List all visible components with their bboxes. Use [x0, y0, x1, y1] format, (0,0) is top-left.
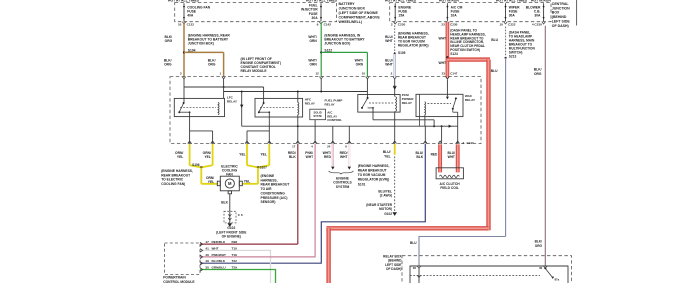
svg-text:10A: 10A: [451, 14, 458, 18]
CCRM bottom pin overlay: [296, 141, 300, 143]
fuse F5 wiper 30A: [505, 3, 507, 21]
svg-text:OF DASH): OF DASH): [386, 267, 401, 271]
svg-text:FIELD COIL: FIELD COIL: [440, 186, 458, 190]
splice S124: [446, 56, 448, 58]
CCRM pin3 wire: [183, 79, 185, 103]
relay K5 inner left line: [418, 94, 420, 126]
wire BLU/BLK navy: [200, 144, 425, 263]
relay box pin 30: [544, 266, 548, 268]
svg-text:10: 10: [362, 72, 366, 76]
connector C230 pin 23: [446, 22, 450, 24]
CCRM bottom pin overlay: [393, 141, 397, 143]
PCM pin 47: [200, 242, 203, 245]
CCRM pin10 wire: [366, 79, 368, 98]
CCRM drop r3: [332, 126, 334, 143]
svg-text:S101: S101: [358, 182, 366, 186]
ground G102 fan: [228, 223, 233, 227]
CCRM bottom pin overlay: [331, 141, 335, 143]
svg-text:YEL: YEL: [260, 153, 266, 157]
wire ORN/YEL to fan: [200, 167, 202, 183]
svg-text:30A: 30A: [534, 14, 541, 18]
CCRM bottom pin 10: [424, 141, 428, 143]
svg-text:(ENGINE HARNESS,: (ENGINE HARNESS,: [358, 164, 390, 168]
CCRM top pin 23 overlay: [446, 77, 450, 79]
svg-text:BLU/BLK: BLU/BLK: [212, 259, 226, 263]
svg-text:G102: G102: [384, 212, 392, 216]
wire ORN/YEL left 2: [212, 144, 214, 165]
svg-text:JUNCTION BOX): JUNCTION BOX): [188, 41, 214, 45]
svg-text:4 C230: 4 C230: [532, 23, 542, 27]
CCRM bottom pin 8: [348, 141, 352, 143]
inline connector C6 (dashed box): [224, 211, 236, 223]
wire BLK/ORG maroon from F6: [544, 26, 546, 266]
relay K2 dashed link: [260, 106, 295, 108]
svg-text:YEL: YEL: [239, 153, 245, 157]
svg-text:REGULATOR (EVR)): REGULATOR (EVR)): [358, 178, 390, 182]
relay K5 coil: [425, 102, 426, 115]
CCRM top pin 1: [222, 77, 226, 79]
svg-text:REAR BREAKOUT: REAR BREAKOUT: [358, 169, 387, 173]
CCRM bottom pin overlay: [268, 141, 272, 143]
svg-text:17: 17: [292, 145, 296, 149]
CCRM top pin 12: [319, 77, 323, 79]
svg-text:TO EGR VACUUM: TO EGR VACUUM: [358, 173, 386, 177]
wire YEL right 2: [268, 144, 270, 165]
CCRM top pin 10: [366, 77, 370, 79]
wire BLK from fan: [229, 194, 231, 212]
svg-text:(2 AWG): (2 AWG): [380, 194, 392, 198]
wire tan branch: [184, 51, 224, 53]
svg-text:BOX: BOX: [552, 11, 560, 15]
fuse F1 cooling fan 40A: [183, 3, 185, 21]
CCRM bottom pin 3: [245, 141, 249, 143]
svg-text:(NEAR STARTER: (NEAR STARTER: [366, 203, 392, 207]
CCRM bottom pin 5: [296, 141, 300, 143]
CCRM link bus y119.8: [373, 119, 434, 121]
PCM dashed box: [165, 243, 200, 274]
CCRM drop r5: [424, 115, 426, 126]
wire BLU slate vertical run: [505, 58, 507, 237]
svg-text:WHT: WHT: [448, 155, 455, 159]
PCM pin 46: [200, 255, 203, 258]
CCRM top pin 3: [182, 77, 186, 79]
CCRM bottom pin 12: [456, 141, 460, 143]
battery junction box (dashed): [175, 3, 337, 22]
svg-text:C142: C142: [324, 23, 332, 27]
svg-text:S107: S107: [260, 166, 268, 170]
A/C clutch field coil L1: [436, 168, 463, 179]
CCRM constant control relay module (dashed box): [170, 77, 481, 144]
CCRM bottom pin 9: [393, 141, 397, 143]
svg-text:RELAY MODULE: RELAY MODULE: [241, 69, 268, 73]
solid state device box: [310, 109, 326, 120]
svg-text:COOLING FAN): COOLING FAN): [161, 182, 185, 186]
svg-text:S213: S213: [509, 54, 517, 58]
relay box dashed internal: [410, 275, 540, 277]
svg-text:CONTROL: CONTROL: [327, 118, 342, 122]
relay K5 dashed link: [428, 103, 452, 105]
svg-text:RELAY: RELAY: [325, 103, 336, 107]
svg-text:ORG: ORG: [208, 63, 216, 67]
connector C222 pin 10: [504, 22, 508, 24]
wire red bottom horizontal run: [326, 226, 488, 230]
svg-text:C222: C222: [508, 23, 516, 27]
CCRM bottom pin 4: [268, 141, 272, 143]
connector C142 pin 9: [319, 22, 323, 24]
PCM pin 49: [200, 262, 203, 265]
svg-text:WHT: WHT: [385, 39, 393, 43]
svg-text:9: 9: [317, 23, 319, 27]
relay K4 contact node: [372, 107, 374, 109]
svg-text:M: M: [228, 181, 232, 186]
svg-text:24: 24: [327, 145, 331, 149]
PCM pin 30: [200, 268, 203, 271]
PCM pin overlay: [200, 242, 203, 245]
PCM pin overlay: [200, 255, 203, 258]
CCRM pin23 wire with arrow: [446, 80, 448, 97]
splice S105: [394, 52, 396, 54]
wire BLU/WHT to A/C clutch: [456, 144, 460, 172]
relay K4 contact drop: [368, 107, 373, 109]
relay K2 contact: [259, 103, 264, 112]
svg-text:S105: S105: [398, 51, 406, 55]
wire BLU/WHT dashed segment from F3: [394, 22, 396, 53]
svg-text:MOTOR): MOTOR): [379, 207, 392, 211]
svg-text:T22: T22: [232, 259, 238, 263]
svg-text:WHT: WHT: [438, 61, 446, 65]
CCRM drop r6: [441, 126, 443, 143]
svg-text:WHT: WHT: [306, 155, 314, 159]
relay K4 contact: [362, 98, 368, 108]
svg-text:LEFT SIDE: LEFT SIDE: [552, 20, 571, 24]
svg-text:10: 10: [499, 23, 503, 27]
svg-text:YEL: YEL: [384, 154, 390, 158]
svg-text:REGULATOR (EVR)): REGULATOR (EVR)): [398, 44, 429, 48]
CCRM drop r3b: [348, 126, 350, 143]
svg-text:36: 36: [413, 266, 417, 270]
svg-text:SENSOR): SENSOR): [261, 200, 276, 204]
svg-text:30A: 30A: [312, 16, 319, 20]
wire PCM row3 PNK/WHT: [200, 256, 315, 258]
engine controls brace: [329, 171, 354, 174]
svg-text:YEL: YEL: [177, 155, 183, 159]
svg-text:STATE: STATE: [313, 114, 322, 118]
CCRM drop r2: [314, 120, 316, 144]
svg-text:JUNCTION BOX): JUNCTION BOX): [324, 41, 350, 45]
svg-text:S124: S124: [450, 52, 458, 56]
svg-text:RELAY: RELAY: [227, 100, 238, 104]
svg-text:WHEELWELL): WHEELWELL): [339, 20, 363, 24]
relay K1 contact: [179, 103, 183, 112]
svg-text:BLU: BLU: [491, 38, 498, 42]
wire BLU/YEL short: [394, 144, 396, 155]
svg-text:C 6: C 6: [238, 213, 243, 217]
fuse F2 fuel injector 30A: [320, 3, 322, 21]
PCM pin 41: [200, 249, 203, 252]
CCRM bottom pin 2: [211, 141, 215, 143]
splice S104: [183, 51, 185, 53]
wire BLU dashed segment from F5: [505, 27, 507, 57]
svg-text:40A: 40A: [187, 14, 194, 18]
fuse F4 A/C CM 10A: [446, 3, 448, 21]
relay box pin 36: [417, 266, 421, 268]
node bus C r4: [433, 125, 435, 127]
connector C122 pin 10: [182, 22, 186, 24]
wire PCM row2 WHT: [200, 250, 270, 283]
arrow RED/WHT: [348, 167, 351, 170]
relay K5 WAC relay box: [416, 94, 463, 116]
relay K1 dashed link: [180, 106, 216, 108]
node bus A / pin 1: [223, 86, 225, 88]
wire PNK/WHT: [314, 144, 316, 257]
svg-text:RELAY: RELAY: [465, 98, 476, 102]
wire WHT/ORN green from F2: [320, 22, 322, 77]
CCRM bottom pin overlay: [456, 141, 460, 143]
svg-text:BLU: BLU: [491, 69, 498, 73]
svg-text:ORG: ORG: [164, 63, 172, 67]
relay K4 PCM power relay box: [358, 95, 400, 113]
svg-text:(BEHIND: (BEHIND: [552, 15, 567, 19]
svg-text:BLU: BLU: [410, 241, 417, 245]
relay K1 output drop: [179, 111, 189, 113]
svg-text:BLK: BLK: [221, 200, 228, 204]
svg-text:C230: C230: [398, 23, 406, 27]
CCRM drop r1: [297, 92, 299, 103]
svg-text:49: 49: [205, 259, 209, 263]
svg-text:87a: 87a: [555, 277, 560, 281]
svg-text:ORG: ORG: [534, 72, 542, 76]
arrow WHT/RED: [331, 167, 334, 170]
wire RED/BLK crimson: [297, 144, 299, 244]
svg-text:ORG: ORG: [535, 244, 543, 248]
CCRM link drop: [433, 120, 435, 126]
connector C230 blower: [542, 22, 546, 24]
CCRM top pin 23: [446, 77, 450, 79]
svg-text:RELAY: RELAY: [402, 101, 413, 105]
wire green branch: [321, 51, 367, 53]
svg-text:YEL: YEL: [244, 180, 250, 184]
svg-text:WHT: WHT: [340, 155, 348, 159]
node bus C r1: [297, 125, 299, 127]
CCRM bottom pin overlay: [313, 141, 317, 143]
svg-text:ORN: ORN: [356, 63, 364, 67]
svg-text:OF DASH): OF DASH): [552, 24, 569, 28]
central junction box (dashed): [390, 3, 551, 22]
svg-text:12: 12: [315, 72, 319, 76]
CCRM pin1 wire: [223, 79, 225, 98]
CCRM bottom pin overlay: [188, 141, 192, 143]
PCM pin overlay: [200, 262, 203, 265]
PCM pin overlay: [200, 249, 203, 252]
svg-text:BLK: BLK: [416, 155, 423, 159]
relay box (dashed): [402, 256, 572, 283]
diode D3 on pin2 wire: [394, 79, 396, 97]
svg-text:WHT: WHT: [385, 63, 393, 67]
relay box left pin drop: [418, 268, 420, 283]
svg-text:S106: S106: [192, 163, 200, 167]
svg-text:ORN: ORN: [309, 63, 317, 67]
CCRM bottom pin overlay: [424, 141, 428, 143]
CCRM bottom pin overlay: [348, 141, 352, 143]
wire BLK/YEL dashed to ground: [394, 157, 396, 212]
node bus B diode: [241, 91, 243, 93]
splice S106: [200, 166, 202, 168]
relay K2 output drop: [259, 111, 269, 113]
electric cooling fan motor M1: [220, 176, 239, 191]
relay K2 coil: [298, 102, 299, 114]
connector C230 pin 2: [393, 22, 397, 24]
CCRM bottom pin 6: [313, 141, 317, 143]
relay box inner module: [410, 266, 568, 283]
svg-text:C147: C147: [450, 72, 458, 76]
svg-text:30: 30: [539, 266, 543, 270]
svg-text:RED: RED: [431, 153, 438, 157]
relay K2 HFC relay box: [255, 98, 303, 117]
splice S107: [257, 166, 259, 168]
CCRM pin12 wire: [320, 79, 322, 92]
relay K1 coil: [218, 102, 219, 114]
svg-text:OF ENGINE): OF ENGINE): [222, 234, 241, 238]
fuse F3 engine 15A: [394, 3, 396, 21]
svg-text:15A: 15A: [398, 14, 405, 18]
ground G102 starter: [392, 212, 397, 216]
node bus C r5: [441, 125, 443, 127]
wire WHT/RED to engine controls: [331, 144, 333, 166]
svg-text:YEL: YEL: [204, 155, 210, 159]
CCRM bottom pin overlay: [211, 141, 215, 143]
banner divider line top right: [576, 0, 578, 26]
splice S213: [505, 57, 507, 59]
CCRM bus C: [242, 125, 458, 127]
relay K4 dashed link: [369, 102, 394, 104]
wire PCM row5 GRN/BLU: [200, 270, 275, 283]
wire BLU/WHT from F3: [393, 53, 395, 77]
svg-text:RED: RED: [324, 155, 332, 159]
wire red right vertical run: [486, 60, 490, 231]
svg-text:WHT: WHT: [438, 37, 446, 41]
svg-text:BLK: BLK: [289, 155, 296, 159]
svg-text:10: 10: [178, 23, 182, 27]
relay K4 coil: [396, 97, 397, 112]
CCRM bus A drop to K2: [263, 87, 265, 103]
wire red bottom drop to PCM power: [326, 228, 330, 283]
svg-text:CENTRAL: CENTRAL: [552, 2, 570, 6]
splice S122: [320, 51, 322, 53]
svg-text:C147: C147: [467, 141, 475, 145]
svg-text:BATTERY: BATTERY: [339, 2, 356, 6]
svg-text:YEL: YEL: [208, 180, 214, 184]
svg-text:SYSTEM: SYSTEM: [336, 185, 350, 189]
relay K5 contact drop: [452, 109, 454, 113]
wire PCM row1 RED/BLK: [200, 243, 298, 245]
wire ORN/YEL left 1: [189, 144, 191, 165]
relay K5 contact: [453, 99, 456, 109]
CCRM bottom pin overlay: [245, 141, 249, 143]
wire YEL to fan: [257, 167, 259, 183]
CCRM bottom pin 7: [331, 141, 335, 143]
svg-text:C122: C122: [187, 23, 195, 27]
CCRM drop r4: [394, 111, 396, 143]
fuse F6 blower C.B. 30A: [543, 3, 545, 21]
svg-text:S122: S122: [324, 48, 332, 52]
CCRM bus A: [184, 86, 264, 88]
svg-text:ORG: ORG: [165, 39, 173, 43]
wire WHT hot feed (highlighted red) from F4: [446, 22, 450, 77]
CCRM bottom pin 1: [188, 141, 192, 143]
svg-text:RELAY: RELAY: [305, 102, 316, 106]
wire YEL right 1: [246, 144, 248, 165]
svg-text:23: 23: [441, 23, 445, 27]
wire RED/WHT to engine controls: [348, 144, 350, 166]
wire BLK/ORG tan from F1: [183, 22, 185, 77]
svg-text:JUNCTION: JUNCTION: [552, 6, 570, 10]
CCRM bus B: [224, 91, 368, 93]
wire red branch to right: [447, 57, 490, 61]
diode D2 on bus C: [449, 125, 452, 128]
svg-text:COMPARTMENT, ABOVE: COMPARTMENT, ABOVE: [339, 15, 381, 19]
CCRM top pin 2: [393, 77, 397, 79]
svg-text:JUNCTION BOX: JUNCTION BOX: [339, 7, 366, 11]
wire BLU into relay box: [419, 237, 506, 267]
wire RED to A/C clutch: [438, 144, 442, 172]
svg-text:2: 2: [391, 23, 393, 27]
PCM pin overlay: [200, 268, 203, 271]
svg-text:30A: 30A: [509, 14, 516, 18]
svg-text:23: 23: [442, 72, 446, 76]
CCRM bottom pin overlay: [438, 141, 442, 143]
svg-text:SOLID: SOLID: [313, 110, 321, 114]
svg-text:ORN: ORN: [309, 39, 317, 43]
relay K1 LFC relay box: [174, 98, 224, 116]
CCRM bottom pin 11: [438, 141, 442, 143]
svg-text:(LEFT SIDE OF ENGINE: (LEFT SIDE OF ENGINE: [339, 11, 379, 15]
node bus B / pin12: [320, 91, 322, 93]
diode D1 to bus C: [241, 92, 243, 127]
relay K6 contact: [545, 268, 552, 277]
svg-text:C230: C230: [450, 23, 458, 27]
